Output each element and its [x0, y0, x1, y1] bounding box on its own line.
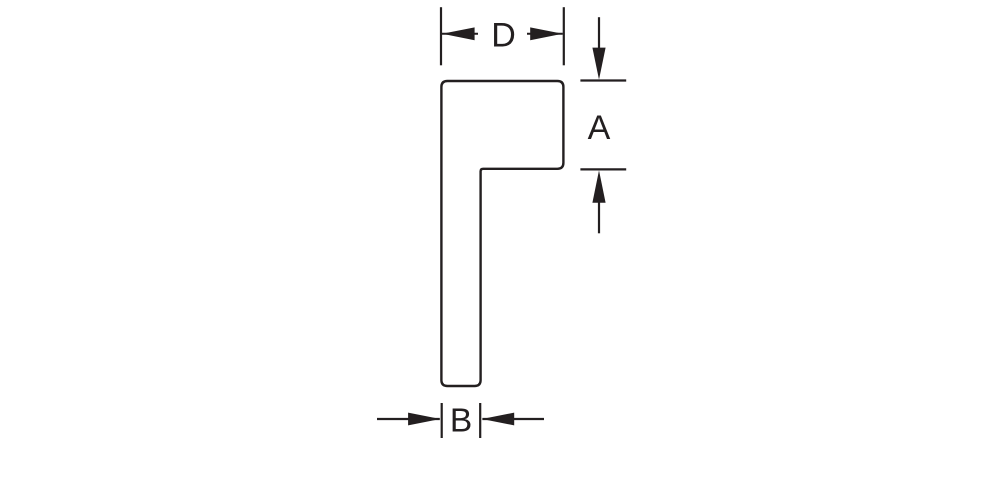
- dimension B: left arrowhead: [408, 413, 440, 426]
- dimension B: right extension line: [479, 403, 481, 438]
- dimension A: bottom extension line: [580, 168, 626, 170]
- svg-text:D: D: [491, 16, 516, 54]
- dimension B: right leader line: [482, 418, 544, 420]
- dimension A: top arrowhead: [592, 48, 605, 80]
- dimension D: left arrowhead: [442, 27, 474, 40]
- dimension D: right extension line: [563, 7, 565, 65]
- dimension B: right arrowhead: [482, 413, 514, 426]
- dimension D: left leader stub: [442, 33, 478, 35]
- svg-text:B: B: [450, 402, 472, 439]
- dimension A: bottom leader stub: [598, 200, 600, 233]
- dimension D: right leader stub: [527, 33, 563, 35]
- dimension A: top leader stub: [598, 17, 600, 52]
- svg-text:A: A: [588, 109, 611, 147]
- dimension D: right arrowhead: [530, 27, 562, 40]
- profile outline (L-shaped cross-section): [441, 81, 563, 386]
- dimension B: left leader line: [377, 418, 440, 420]
- dimension A: bottom arrowhead: [592, 170, 605, 202]
- dimension D: left extension line: [440, 7, 442, 65]
- dimension A: top extension line: [580, 79, 626, 81]
- dimension B: left extension line: [441, 403, 443, 438]
